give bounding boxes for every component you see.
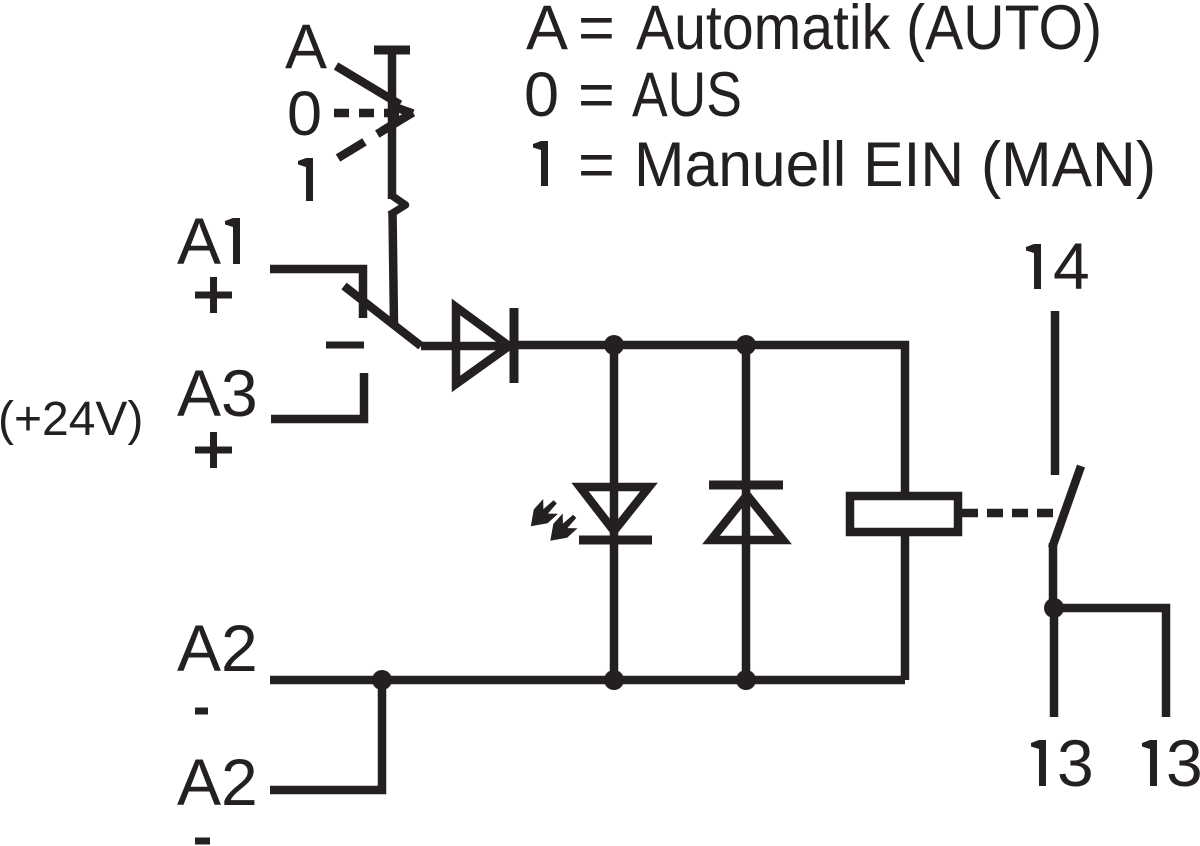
- switch blade contact A1: [344, 286, 421, 346]
- svg-text:A: A: [177, 204, 221, 278]
- svg-text:3: 3: [1057, 726, 1094, 800]
- svg-text:A3: A3: [177, 356, 258, 430]
- selector manual actuator T-bar: [374, 46, 410, 55]
- wire: blade to junction: [1049, 543, 1058, 608]
- wire: left 13 vertical: [1050, 608, 1059, 717]
- wire: right 13 branch: [1054, 608, 1166, 717]
- polarity minus A2 lower: [195, 838, 210, 845]
- LED triangle: [580, 487, 649, 531]
- selector arrowhead chevron upper leg: [389, 105, 413, 114]
- terminal label 13 right: [1142, 740, 1157, 786]
- node junction dot A2 branch: [372, 670, 392, 690]
- svg-text:(+24V): (+24V): [0, 393, 143, 446]
- svg-text:0=AUS: 0=AUS: [524, 60, 742, 130]
- wire: terminal A1 to fixed contact: [270, 269, 363, 318]
- terminal label 13 left: [1031, 740, 1046, 786]
- diode D1 cathode bar: [510, 308, 519, 383]
- suppressor diode cathode bar: [709, 481, 783, 490]
- wire: blade to diode D1: [421, 342, 514, 351]
- wire: bottom bus A2: [270, 676, 905, 685]
- wire: position 0 line (dashed): [334, 109, 401, 118]
- wire: suppressor diode branch vertical: [742, 345, 751, 680]
- label 1 (selector position): [298, 158, 313, 201]
- node junction dot contact: [1044, 598, 1064, 618]
- wire: terminal 14 vertical: [1051, 311, 1060, 475]
- svg-text:A2: A2: [177, 745, 258, 819]
- LED cathode bar: [579, 536, 652, 545]
- selector actuator rod kink: [390, 195, 406, 215]
- relay coil K1 rectangle: [850, 496, 958, 532]
- dashed mechanical link coil to contact: [962, 509, 1058, 518]
- node junction dot top suppressor: [736, 335, 756, 355]
- node junction dot top LED: [604, 335, 624, 355]
- node junction dot suppressor bottom: [736, 670, 756, 690]
- wire: coil bottom to bus: [901, 532, 910, 680]
- svg-text:3: 3: [1166, 726, 1200, 800]
- wire: top bus from D1 to coil: [514, 345, 905, 497]
- wire: terminal A3 bracket: [271, 373, 364, 419]
- polarity plus A1: [195, 277, 232, 313]
- svg-text:A: A: [285, 12, 327, 82]
- terminal label 14: [1026, 244, 1041, 289]
- wire: position A line (solid): [336, 66, 400, 105]
- svg-text:A=Automatik (AUTO): A=Automatik (AUTO): [526, 0, 1102, 63]
- svg-text:1=Manuell EIN (MAN): 1=Manuell EIN (MAN): [528, 130, 1156, 200]
- wire: second A2 terminal branch: [270, 680, 382, 790]
- wire: position 1 line (dashed): [338, 119, 402, 158]
- polarity minus A2 upper: [195, 708, 208, 715]
- selector actuator rod lower: [393, 211, 395, 325]
- LED light arrow 1: [531, 499, 558, 526]
- node junction dot LED bottom: [604, 670, 624, 690]
- fixed contact dash A3: [326, 342, 364, 349]
- LED light arrow 2: [550, 514, 577, 541]
- wire: LED branch vertical: [610, 345, 619, 680]
- selector actuator rod upper: [388, 50, 397, 199]
- legend line 3 digit one: [533, 141, 548, 186]
- diode D1 triangle: [456, 307, 509, 384]
- selector arrowhead chevron lower leg: [382, 113, 413, 132]
- svg-text:A2: A2: [177, 611, 258, 685]
- svg-text:4: 4: [1053, 229, 1090, 303]
- relay contact blade 14-13: [1052, 466, 1081, 548]
- polarity plus A3: [195, 432, 232, 468]
- svg-text:0: 0: [287, 79, 322, 149]
- suppressor diode triangle: [711, 495, 783, 540]
